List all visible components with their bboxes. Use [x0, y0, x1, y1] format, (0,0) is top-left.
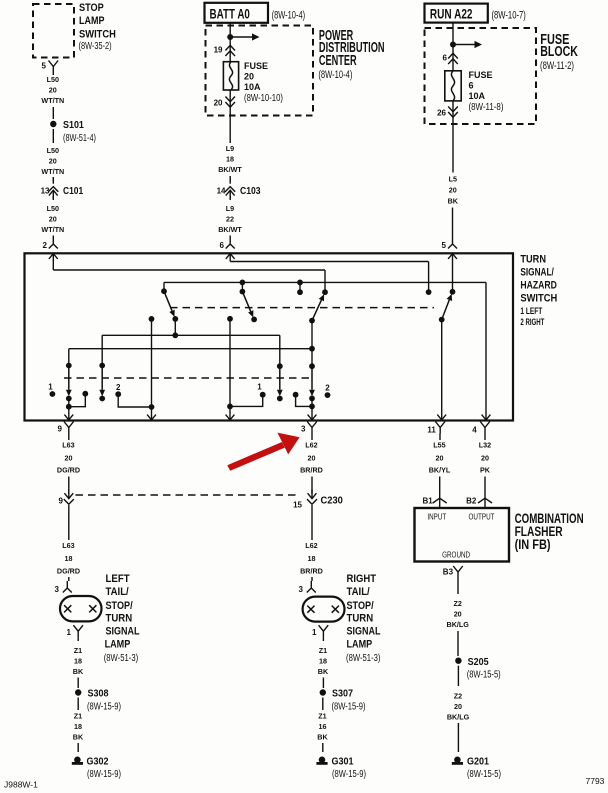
wire below C103 — [229, 196, 231, 200]
contact dot (left of W3) — [297, 289, 303, 295]
svg-text:(IN FB): (IN FB) — [515, 537, 551, 552]
connector pin 5 (male, above switch box) — [448, 237, 457, 249]
wire label L55 20 BK/YL — [429, 441, 451, 475]
svg-text:14: 14 — [217, 186, 226, 195]
connector pin 1 left lamp (Y) — [73, 625, 83, 637]
svg-text:10A: 10A — [469, 91, 486, 101]
svg-text:1: 1 — [67, 628, 72, 637]
junction dot in PDC — [227, 34, 233, 40]
wire H2 from pin 6 — [230, 261, 428, 263]
svg-text:5: 5 — [42, 62, 47, 71]
svg-text:BK/LG: BK/LG — [447, 712, 470, 721]
svg-text:(8W-15-9): (8W-15-9) — [87, 701, 121, 712]
svg-text:18: 18 — [74, 722, 82, 731]
svg-text:BK/WT: BK/WT — [218, 225, 242, 234]
contact dot (hazard feed) — [426, 289, 432, 295]
svg-text:STOP/: STOP/ — [347, 600, 374, 612]
svg-text:(8W-15-5): (8W-15-5) — [467, 769, 501, 780]
wire H3 (flasher output bus) — [164, 281, 486, 283]
svg-text:20: 20 — [436, 454, 444, 463]
wire to S307 — [322, 678, 324, 689]
arrowhead pin 9 exit — [64, 415, 73, 420]
wire label Z1 18 BK (upper left) — [73, 646, 84, 676]
arrow to other circuits (fuse block) — [453, 44, 476, 46]
svg-text:WT/TN: WT/TN — [41, 96, 64, 105]
wire to C103 — [229, 176, 231, 181]
wire below C101 — [52, 196, 54, 200]
label FUSE BLOCK — [540, 32, 578, 60]
wire W3 pivot down to H4 — [311, 321, 313, 367]
svg-text:18: 18 — [74, 656, 82, 665]
wire label L63 20 DG/RD — [57, 441, 80, 475]
connector pin 1 right lamp (Y) — [319, 625, 329, 637]
svg-text:3: 3 — [55, 585, 60, 594]
svg-text:20: 20 — [49, 156, 57, 165]
svg-text:G201: G201 — [467, 755, 489, 767]
svg-text:Z1: Z1 — [74, 711, 82, 720]
svg-text:TURN: TURN — [520, 254, 546, 266]
wire label L50 20 WT/TN — [41, 146, 64, 176]
svg-text:Z1: Z1 — [319, 646, 327, 655]
wire below S101 — [52, 129, 54, 143]
label COMBINATION FLASHER (IN FB) — [515, 511, 584, 552]
wire to S205 — [457, 631, 459, 656]
svg-text:B2: B2 — [466, 497, 477, 506]
wire L1 left drop to W6 pivot — [101, 335, 103, 365]
connector pin 4 (Y below box) — [480, 422, 490, 434]
svg-text:WT/TN: WT/TN — [41, 225, 64, 234]
svg-text:J988W-1: J988W-1 — [4, 780, 38, 790]
svg-text:LAMP: LAMP — [105, 639, 131, 651]
svg-text:BATT A0: BATT A0 — [210, 5, 251, 21]
wire W8 contact to junction — [311, 398, 313, 406]
component box: FUSE BLOCK (dashed) — [425, 28, 537, 124]
junction dot H4/pin3 column — [309, 346, 315, 352]
wire to G302 — [77, 743, 79, 752]
junction dot pin 3 — [309, 404, 315, 410]
svg-text:S307: S307 — [332, 688, 353, 700]
svg-text:BK/WT: BK/WT — [218, 165, 242, 174]
left lamp filament X 2 — [89, 605, 96, 612]
svg-text:B3: B3 — [443, 568, 454, 577]
svg-text:18: 18 — [308, 554, 316, 563]
svg-text:L50: L50 — [47, 146, 59, 155]
svg-text:BK: BK — [317, 732, 328, 741]
svg-text:5: 5 — [442, 241, 447, 250]
svg-text:18: 18 — [65, 554, 73, 563]
wiper W6 pivot — [99, 363, 105, 369]
contact dot W1 left — [149, 316, 155, 322]
svg-text:TURN: TURN — [347, 612, 374, 624]
left lamp body — [60, 596, 102, 621]
component box: POWER DISTRIBUTION CENTER (dashed) — [206, 26, 314, 116]
svg-text:HAZARD: HAZARD — [520, 280, 557, 292]
wire label Z1 18 BK (lower left) — [73, 711, 84, 741]
wiper W8 pivot — [309, 363, 315, 369]
connector C103 — [229, 179, 231, 184]
svg-text:Z2: Z2 — [454, 691, 462, 700]
svg-text:3: 3 — [301, 425, 306, 434]
wire to G201 — [457, 723, 459, 752]
wire from W2 left contact down — [229, 319, 231, 407]
svg-text:BK: BK — [448, 197, 459, 206]
svg-text:STOP: STOP — [79, 2, 104, 14]
svg-text:20: 20 — [49, 215, 57, 224]
svg-text:SIGNAL: SIGNAL — [347, 626, 381, 638]
svg-text:6: 6 — [443, 54, 448, 63]
junction dot H3/contact — [297, 280, 303, 286]
svg-text:20: 20 — [454, 702, 462, 711]
position dot 1 (left group) — [50, 391, 56, 397]
wire pin 3 to bottom edge — [311, 406, 313, 420]
svg-text:(8W-51-3): (8W-51-3) — [104, 653, 139, 664]
wire label L9 18 BK/WT — [218, 144, 242, 174]
svg-text:SIGNAL/: SIGNAL/ — [520, 267, 553, 279]
svg-text:OUTPUT: OUTPUT — [469, 512, 495, 522]
wire to flasher B1 — [439, 477, 441, 509]
svg-text:SIGNAL: SIGNAL — [106, 626, 140, 638]
wire label L62 18 BR/RD — [300, 541, 323, 575]
wiper W2 pivot — [240, 289, 246, 295]
svg-text:BK/YL: BK/YL — [429, 466, 451, 475]
svg-text:C103: C103 — [240, 185, 261, 197]
svg-text:LAMP: LAMP — [79, 15, 105, 27]
wiper W4 arm — [442, 300, 450, 320]
wire stub to W2 pivot — [241, 282, 243, 291]
svg-text:S101: S101 — [63, 119, 84, 131]
connector C230 right half — [311, 490, 313, 499]
position dot 2 (right group) — [325, 392, 331, 398]
connector C101 — [52, 179, 54, 184]
svg-text:LAMP: LAMP — [347, 639, 373, 651]
svg-text:TURN: TURN — [106, 612, 133, 624]
svg-text:S308: S308 — [88, 688, 109, 700]
wiper W5 pivot — [66, 363, 72, 369]
wire from fuse to block bottom — [452, 101, 454, 124]
svg-text:L32: L32 — [479, 441, 491, 450]
svg-text:20: 20 — [449, 186, 457, 195]
svg-text:20: 20 — [214, 99, 223, 108]
label STOP LAMP SWITCH — [79, 2, 116, 40]
splice S205 — [455, 658, 461, 664]
svg-text:20: 20 — [454, 610, 462, 619]
wire to C230 left — [68, 477, 70, 495]
svg-text:RIGHT: RIGHT — [347, 573, 377, 585]
wire L1 — [102, 334, 280, 336]
connector C230 left half — [68, 490, 70, 499]
svg-text:BK/LG: BK/LG — [447, 620, 470, 629]
svg-text:2: 2 — [325, 383, 330, 392]
component box: COMBINATION FLASHER — [415, 508, 510, 562]
svg-text:GROUND: GROUND — [442, 550, 470, 560]
svg-text:Z1: Z1 — [74, 646, 82, 655]
red callout arrow — [227, 433, 299, 471]
label TURN SIGNAL/HAZARD SWITCH — [520, 254, 557, 305]
contact dot W2 right — [251, 317, 257, 323]
wire to right lamp — [311, 577, 313, 581]
svg-text:BR/RD: BR/RD — [300, 466, 323, 475]
right lamp filament X 1 — [307, 606, 314, 613]
wire to G301 — [322, 743, 324, 752]
svg-text:BK: BK — [73, 732, 84, 741]
svg-text:7793: 7793 — [586, 776, 605, 786]
arrow to other circuits (PDC) — [230, 36, 253, 38]
svg-text:SWITCH: SWITCH — [520, 293, 557, 305]
wiper W3 pivot — [309, 318, 315, 324]
contact dot W7 — [277, 396, 283, 402]
ground G301 — [319, 757, 326, 764]
wire from RUN A22 into fuse block — [452, 23, 454, 71]
wire pin 5 down to contact — [452, 253, 454, 291]
wire L50 upper stub — [52, 73, 54, 76]
connector pin 3 right lamp (male) — [307, 581, 316, 593]
wire below S308 — [77, 698, 79, 711]
svg-text:L62: L62 — [305, 541, 317, 550]
svg-text:(8W-15-5): (8W-15-5) — [467, 670, 501, 681]
svg-text:BK: BK — [73, 667, 84, 676]
wire to switch pin 5 — [452, 208, 454, 238]
junction dot H3/wiper W2 — [240, 280, 246, 286]
wire below S205 — [457, 666, 459, 686]
arrowhead pin 2 entry — [49, 254, 58, 259]
position dot 1 (right group) — [260, 392, 266, 398]
wire Z2 upper — [457, 578, 459, 594]
wire pin 2 down — [52, 253, 54, 270]
wire label Z1 16 BK (lower right) — [317, 711, 328, 741]
wire from W1 right contact down — [174, 319, 176, 335]
wiper W7 arm — [279, 366, 281, 390]
svg-text:18: 18 — [319, 656, 327, 665]
svg-text:(8W-10-4): (8W-10-4) — [318, 69, 352, 81]
svg-text:2: 2 — [116, 383, 121, 392]
svg-text:1: 1 — [48, 382, 53, 391]
fuse F6 10A — [445, 71, 461, 101]
wire col-151 to bottom edge — [151, 407, 153, 420]
wire side contact L to pin 9 — [69, 394, 86, 407]
component box: RUN A22 — [425, 4, 488, 23]
svg-text:C101: C101 — [63, 185, 83, 197]
contact dot W1 right — [172, 316, 178, 322]
svg-text:LEFT: LEFT — [106, 573, 130, 585]
wire below S307 — [322, 698, 324, 711]
svg-text:SWITCH: SWITCH — [79, 29, 116, 41]
svg-text:PK: PK — [480, 466, 491, 475]
wire pos-1 to col-230 — [230, 395, 263, 407]
wire pin 6 down — [229, 253, 231, 261]
svg-text:Z1: Z1 — [318, 711, 326, 720]
svg-text:3: 3 — [299, 585, 304, 594]
svg-text:L63: L63 — [62, 541, 74, 550]
svg-text:STOP/: STOP/ — [106, 600, 133, 612]
wire stub to contact — [299, 282, 301, 292]
contact dot (stop lamp feed) — [322, 289, 328, 295]
splice S101 — [50, 121, 56, 127]
svg-text:11: 11 — [427, 426, 436, 435]
connector 26 (double chevron down) — [448, 107, 458, 118]
svg-text:1 LEFT: 1 LEFT — [520, 306, 542, 316]
svg-text:FUSE: FUSE — [469, 70, 493, 80]
svg-text:G301: G301 — [332, 755, 354, 767]
svg-text:(8W-15-9): (8W-15-9) — [332, 701, 366, 712]
side contact dot (hazard-left) — [82, 391, 88, 397]
junction dot col-230 — [227, 404, 233, 410]
component box: BATT A0 — [205, 3, 269, 23]
left lamp filament X 1 — [64, 605, 71, 612]
svg-text:2: 2 — [43, 241, 48, 250]
wire L9 below PDC — [229, 116, 231, 144]
wire to left lamp — [68, 577, 70, 581]
svg-text:L50: L50 — [47, 204, 59, 213]
svg-text:20: 20 — [49, 85, 57, 94]
wire pin 9 to bottom edge — [68, 407, 70, 420]
svg-text:CENTER: CENTER — [319, 53, 357, 69]
wiper W6 arm — [101, 366, 103, 390]
svg-text:(8W-51-3): (8W-51-3) — [346, 653, 381, 664]
mechanical link (dashed) lower — [64, 377, 312, 379]
wire label L63 18 DG/RD — [57, 541, 80, 575]
svg-text:(8W-15-9): (8W-15-9) — [332, 769, 366, 780]
wire from fuse to PDC bottom — [229, 90, 231, 116]
svg-text:16: 16 — [319, 722, 327, 731]
wire label L32 20 PK — [479, 441, 491, 475]
ground G302 — [74, 757, 81, 764]
ground G201 — [454, 757, 461, 764]
wiper W8 arm — [311, 366, 313, 390]
wire L1 right drop to W7 pivot — [279, 335, 281, 366]
svg-text:WT/TN: WT/TN — [41, 167, 64, 176]
svg-text:19: 19 — [214, 46, 223, 55]
arrowhead pin 4 exit — [482, 415, 491, 420]
svg-text:(8W-10-10): (8W-10-10) — [244, 93, 283, 104]
wire from W1 left contact down — [151, 319, 153, 407]
svg-text:DG/RD: DG/RD — [57, 466, 80, 475]
svg-text:TAIL/: TAIL/ — [347, 586, 370, 598]
wire L5 below fuse block — [452, 124, 454, 173]
contact dot (turn feed) — [450, 289, 456, 295]
connector pin 6 (male, above switch box) — [226, 237, 235, 249]
wiper W4 pivot — [439, 317, 445, 323]
label RIGHT TAIL/STOP/TURN SIGNAL LAMP — [347, 573, 381, 651]
right lamp filament X 2 — [332, 606, 339, 613]
wire H4 — [69, 348, 312, 350]
wire label L50 20 WT/TN — [41, 75, 64, 105]
wire to switch pin 6 — [229, 236, 231, 238]
wire label L50 20 WT/TN — [41, 204, 64, 234]
junction dot in fuse block — [450, 42, 456, 48]
svg-text:(8W-15-9): (8W-15-9) — [87, 769, 121, 780]
wire L55 — [439, 434, 441, 441]
wire Z1 upper left — [77, 637, 79, 641]
svg-text:L9: L9 — [226, 204, 234, 213]
wire H3 left drop — [163, 282, 165, 291]
svg-text:20: 20 — [65, 454, 73, 463]
svg-text:Z2: Z2 — [454, 599, 462, 608]
wire label L5 20 BK — [448, 175, 459, 206]
wire H1 drop to contact — [324, 270, 326, 292]
svg-text:(8W-10-7): (8W-10-7) — [492, 10, 526, 22]
wire H1 from pin 2 — [53, 269, 325, 271]
svg-text:L50: L50 — [47, 75, 59, 84]
junction dot L1/W1-right — [172, 332, 178, 338]
svg-text:(8W-11-8): (8W-11-8) — [469, 102, 504, 113]
wire label Z2 20 BK/LG (lower) — [447, 691, 470, 721]
svg-text:26: 26 — [437, 109, 446, 118]
wire L32 — [484, 434, 486, 441]
wire to C101 — [52, 177, 54, 181]
wire to C230 right — [311, 477, 313, 495]
component box: TURN SIGNAL / HAZARD SWITCH — [25, 253, 514, 420]
wiper W3 arm — [312, 300, 321, 321]
label POWER DISTRIBUTION CENTER — [319, 28, 385, 69]
wire W4 pivot to pin 11 exit — [441, 320, 443, 420]
wire Z1 upper right — [322, 637, 324, 641]
wire H3 right drop to pin 4 — [485, 282, 487, 420]
wire L62 upper — [311, 434, 313, 441]
wire below C230 left — [68, 510, 70, 541]
splice S308 — [75, 689, 81, 695]
svg-text:L63: L63 — [62, 441, 74, 450]
wire from BATT A0 into PDC — [229, 23, 231, 62]
side contact dot (hazard-right) — [293, 392, 299, 398]
svg-text:(8W-51-4): (8W-51-4) — [63, 133, 96, 144]
svg-text:9: 9 — [59, 496, 64, 505]
svg-text:6: 6 — [469, 81, 474, 91]
svg-text:G302: G302 — [87, 755, 109, 767]
arrowhead pin 11 exit — [437, 415, 446, 420]
label LEFT TAIL/STOP/TURN SIGNAL LAMP — [105, 573, 140, 651]
wire H4 left drop to W5 pivot — [68, 349, 70, 366]
svg-text:4: 4 — [472, 426, 477, 435]
wire to splice S101 — [52, 107, 54, 119]
label FUSE 20 10A — [244, 61, 268, 92]
fuse F20 10A — [223, 62, 238, 90]
svg-text:2 RIGHT: 2 RIGHT — [520, 317, 544, 327]
connector pin 11 (Y below box) — [435, 422, 445, 434]
wire W5 contact to junction — [68, 399, 70, 407]
svg-text:20: 20 — [481, 454, 489, 463]
wire to flasher B2 — [484, 477, 486, 509]
wire below C230 right — [311, 510, 313, 541]
svg-text:20: 20 — [244, 72, 254, 82]
wire label Z2 20 BK/LG (upper) — [447, 599, 470, 629]
svg-text:RUN A22: RUN A22 — [430, 6, 473, 22]
wire pos-2 to col-151 — [118, 394, 151, 407]
arrowhead col-230 at box bottom — [226, 415, 235, 420]
svg-text:9: 9 — [58, 425, 63, 434]
svg-text:1: 1 — [257, 382, 262, 391]
contact dot W6 — [99, 396, 105, 402]
svg-text:L9: L9 — [226, 144, 234, 153]
junction dot pin 9 — [66, 404, 72, 410]
label FUSE 6 10A — [469, 70, 493, 101]
wire label L62 20 BR/RD — [300, 441, 323, 475]
connector pin 9 (Y below box) — [64, 422, 74, 434]
connector pin 5 (Y) — [49, 61, 59, 73]
wiper W7 pivot — [277, 363, 283, 369]
connector B1 (chevron) — [433, 498, 447, 503]
wiper W1 pivot — [161, 288, 167, 294]
wire to switch pin 2 — [52, 236, 54, 238]
svg-text:22: 22 — [226, 215, 234, 224]
svg-text:TAIL/: TAIL/ — [106, 586, 129, 598]
connector 20 (double chevron down) — [225, 97, 235, 108]
svg-text:INPUT: INPUT — [427, 512, 446, 522]
contact dot W5 — [66, 396, 72, 402]
wire label L9 22 BK/WT — [218, 204, 242, 234]
mechanical link (dashed) upper — [170, 307, 434, 309]
wiper W1 arm — [164, 291, 172, 311]
svg-text:10A: 10A — [244, 82, 261, 92]
